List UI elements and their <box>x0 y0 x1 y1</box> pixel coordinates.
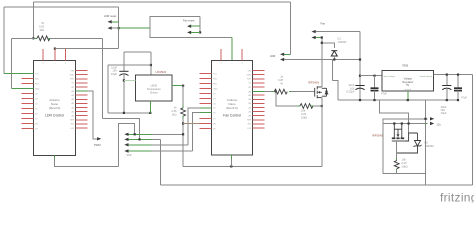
wire PWM from U1 <box>88 91 98 139</box>
wire divider row left <box>12 37 35 39</box>
svg-text:0.25: 0.25 <box>301 112 307 116</box>
wire 12V input rail <box>360 75 382 77</box>
node junction fan/12V rail <box>359 75 361 77</box>
svg-text:0.22µF: 0.22µF <box>346 90 355 94</box>
wire R5 top lead <box>396 152 398 158</box>
Q1 gate arrow <box>317 91 320 93</box>
capacitor C3 47uF <box>374 76 376 88</box>
svg-text:(Rev3.0): (Rev3.0) <box>226 106 238 110</box>
svg-text:10k: 10k <box>301 108 306 112</box>
label U4 inner <box>402 77 413 87</box>
node junction C5 top <box>457 74 459 76</box>
svg-text:10µF: 10µF <box>111 72 117 76</box>
wire gnd riser to row1 <box>119 124 135 167</box>
node junction LDR reset <box>118 27 120 29</box>
wire reset chain lower branch <box>150 28 232 37</box>
sensor U3 LM35 box <box>136 75 173 101</box>
wire LDR reset to Fan reset chain <box>119 27 150 29</box>
wire 12V riser <box>425 100 427 123</box>
svg-text:47uF: 47uF <box>381 92 387 96</box>
svg-text:Fan reset: Fan reset <box>183 19 195 23</box>
U1 top pin numbers <box>42 63 67 65</box>
wire 5V output rail <box>433 74 472 76</box>
connector arrow row3 <box>124 143 128 146</box>
resistor R4 10k <box>300 104 313 109</box>
wire ldr spur <box>331 60 333 81</box>
wire reset stub down <box>118 28 120 48</box>
svg-text:LDR: LDR <box>270 54 275 58</box>
wire 12V block loop <box>383 124 426 174</box>
wire R2 bottom to row1 <box>182 116 184 119</box>
node junction C4 top <box>446 74 448 76</box>
node junction R2 row1 <box>182 133 184 135</box>
node junction H1-LM35 <box>149 112 151 114</box>
connector arrow Fan reset 2 <box>187 31 191 34</box>
wire D1 anode to LDR line <box>333 56 335 60</box>
wire cap top rail <box>108 64 151 66</box>
svg-text:fritzing: fritzing <box>440 191 474 204</box>
node junction row2 <box>138 138 140 140</box>
connector arrow LDR 1 <box>280 53 284 56</box>
U3 right pin <box>172 85 183 87</box>
svg-text:ground: ground <box>405 89 411 91</box>
svg-text:VIN: VIN <box>71 70 75 72</box>
wire row4 to Arduino2 <box>128 150 152 152</box>
connector arrow 12v minus <box>426 123 428 125</box>
wire R5 bottom lead <box>396 169 398 171</box>
wire Arduino1 reset pin to frame <box>4 73 33 75</box>
node junction gnd C2 <box>359 99 361 101</box>
svg-text:PWM: PWM <box>94 143 101 147</box>
wire LDR sense line <box>284 59 360 61</box>
resistor R3 1k gate <box>274 89 287 94</box>
wire Fan reset vertical <box>199 17 201 33</box>
node junction D1/LDR line <box>333 58 335 60</box>
transistor Q1 IRF540N <box>315 86 328 98</box>
wire Q1 source down <box>321 98 323 167</box>
arduino U2 Fan Control box <box>212 60 253 155</box>
wire fan feed down to 12V rail <box>359 32 361 101</box>
wire Q2 source to R5 <box>396 141 398 152</box>
capacitor C5 ceramic <box>457 75 459 88</box>
U2 top pin 2 reset <box>241 49 243 60</box>
node junction row1 <box>134 133 136 135</box>
wire cap top feed <box>124 51 151 53</box>
svg-text:1N4007: 1N4007 <box>338 40 348 44</box>
svg-text:LDR Control: LDR Control <box>45 114 64 118</box>
wire 5V bottom rail <box>161 184 473 186</box>
U2 pin labels left <box>213 73 218 130</box>
node junction gate divider <box>275 91 277 93</box>
U1 top pin 1 <box>42 49 44 60</box>
resistor R2 1k vertical <box>181 108 186 116</box>
wire top 5V rail <box>33 1 290 3</box>
node junction C5 gnd <box>457 99 459 101</box>
node junction divider top <box>32 37 34 39</box>
wire 5V rail drop to divider <box>32 2 34 38</box>
wire row1 <box>128 133 152 135</box>
wire gnd spur corner <box>332 81 338 100</box>
svg-text:LM35DZ: LM35DZ <box>156 70 167 74</box>
wire A2 pin stub <box>183 123 199 125</box>
svg-text:LDR reset: LDR reset <box>104 14 116 18</box>
node junction C1 / LM35 left pin <box>123 79 125 81</box>
connector arrow row2 <box>124 138 128 141</box>
svg-text:7805: 7805 <box>402 64 409 68</box>
connector arrow 12v plus <box>383 119 428 124</box>
svg-text:IRF540N: IRF540N <box>308 81 319 85</box>
wire ground rail right section <box>338 99 458 101</box>
wire top-left horizontal (reset net) <box>4 6 119 8</box>
svg-text:10µF: 10µF <box>441 111 447 115</box>
transistor Q2 IRF9540 <box>392 124 418 142</box>
wire ground rail mid <box>183 165 322 167</box>
U1 top pin 2 (5V) <box>54 49 56 60</box>
Q2 arrow <box>397 134 400 137</box>
svg-text:Fan Control: Fan Control <box>223 114 241 118</box>
label U1 Arduino Nano (Rev3.0) <box>49 98 61 110</box>
connector arrow PWM <box>97 137 101 140</box>
wire flyback branch <box>322 43 335 48</box>
node junction block top <box>408 122 410 124</box>
svg-text:47uF: 47uF <box>461 96 467 100</box>
svg-text:Fan: Fan <box>321 22 326 26</box>
svg-text:GND: GND <box>70 75 75 77</box>
connector arrow LDR reset 2 <box>108 26 112 29</box>
node junction fan drain <box>321 36 323 38</box>
resistor R5 10k <box>394 161 399 169</box>
U1 right pins <box>76 71 88 128</box>
svg-text:12v: 12v <box>437 123 442 127</box>
U3 left pin <box>124 79 136 81</box>
U1 top pin 3 <box>65 49 67 60</box>
wire LM35 out down to R2 <box>182 86 184 106</box>
node junction source/pulldown <box>321 105 323 107</box>
wire 5V rail drop to LDR connector <box>289 2 291 54</box>
U2 top pin numbers <box>220 63 243 65</box>
regulator U4 7805 box <box>382 70 433 91</box>
svg-text:5V: 5V <box>406 84 409 87</box>
node junction H1-C1 <box>123 112 125 114</box>
node junction A2 gnd <box>230 165 232 167</box>
capacitor C2 22uF <box>355 85 364 87</box>
capacitor C1 10uF <box>123 52 125 71</box>
capacitor C4 electrolytic <box>446 75 448 86</box>
wire R4 to source <box>311 105 314 107</box>
node junction LM35 out <box>182 85 184 87</box>
arduino U1 LDR Control box <box>34 60 76 155</box>
svg-text:0.25: 0.25 <box>278 78 284 82</box>
U4 ground pin wire <box>407 91 409 100</box>
wire divider down right side <box>101 38 103 118</box>
wire divider to Arduino1 A-pin <box>11 38 13 88</box>
wire gate row from U2 <box>265 91 272 93</box>
wire H1 ground link <box>108 112 150 114</box>
wire H2 to row2 <box>102 118 139 139</box>
svg-text:10k: 10k <box>402 157 407 161</box>
U2 left pins <box>200 74 212 129</box>
connector arrow LDR reset 1 <box>108 20 112 23</box>
svg-text:D2: D2 <box>425 140 429 144</box>
svg-text:VCC: VCC <box>127 154 132 157</box>
wire gnd drop into block <box>380 100 409 133</box>
node junction gnd C3 <box>373 99 375 101</box>
U2 top pin 1 <box>220 49 222 60</box>
wire row2 drop to 5V bottom rail <box>160 139 162 185</box>
connector arrow Fan reset 1 <box>187 25 191 28</box>
svg-text:0.25: 0.25 <box>39 24 45 28</box>
resistor R1 1k 0.25W <box>37 36 50 41</box>
wire reset drop to LDR reset arrows <box>118 7 120 28</box>
U2 pin labels right <box>247 70 252 129</box>
wire left frame vertical (reset net) <box>3 7 5 73</box>
wire divider row right <box>48 37 51 39</box>
diode D1 1N4007 <box>331 51 337 56</box>
wire Q1 drain up <box>321 38 323 88</box>
svg-text:10kΩ: 10kΩ <box>402 165 408 169</box>
connector arrow LDR 2 <box>280 58 284 61</box>
node junction flyback top <box>321 42 323 44</box>
node junction 12v riser <box>424 118 426 120</box>
U2 bottom GND pin wire <box>230 155 232 160</box>
wire row3 to Arduino2 <box>128 144 152 146</box>
svg-text:1kΩ: 1kΩ <box>172 113 177 117</box>
svg-text:D1: D1 <box>338 37 342 41</box>
connector arrow Fan 2 <box>312 36 316 39</box>
diode D2 zener 1N4099 <box>397 133 422 153</box>
U1 pin labels left <box>35 73 40 130</box>
wire gate row to mosfet <box>289 91 292 93</box>
svg-text:input voltage: input voltage <box>384 75 396 78</box>
connector arrow row4 <box>124 149 128 152</box>
wire cap rail left drop <box>107 65 109 113</box>
node junction Fan reset <box>199 31 201 33</box>
svg-text:Sensor: Sensor <box>150 91 158 94</box>
svg-text:0.25: 0.25 <box>171 109 177 113</box>
svg-text:IRF9540: IRF9540 <box>372 133 383 137</box>
svg-text:1N4099: 1N4099 <box>425 144 435 148</box>
node junction LM35 vcc <box>150 64 152 66</box>
node junction gnd U4 <box>407 99 409 101</box>
wire 5V feed line <box>55 48 119 50</box>
node junction R2 tap <box>182 122 184 124</box>
wire LM35 riser <box>150 52 152 75</box>
node junction C4 gnd <box>446 99 448 101</box>
wire 5V right drop <box>472 75 474 185</box>
U1 pin labels right <box>70 70 75 129</box>
wire gate pulldown drop <box>276 92 298 106</box>
svg-text:10kΩ: 10kΩ <box>301 116 307 120</box>
node junction fan/ldr <box>359 58 361 60</box>
svg-text:GND: GND <box>213 88 218 90</box>
wire row2 <box>128 138 152 140</box>
node junction 5V stub <box>54 48 56 50</box>
U1 bottom GND pin wire <box>54 155 56 160</box>
U2 right pins <box>253 71 265 128</box>
wire reset to Arduino2 top pin <box>231 38 233 61</box>
connector arrow Fan 1 <box>312 30 316 33</box>
U1 left pins <box>22 74 34 129</box>
svg-text:VIN: VIN <box>248 70 252 72</box>
svg-text:0.25: 0.25 <box>402 161 408 165</box>
svg-text:1kΩ: 1kΩ <box>39 28 44 32</box>
U3 bottom pin wire <box>149 101 151 113</box>
label U3 inner text <box>147 85 162 95</box>
connector arrow row1 <box>124 133 128 136</box>
svg-text:(Rev3.0): (Rev3.0) <box>49 106 61 110</box>
label U2 Arduino Nano (Rev3.0) <box>226 98 238 110</box>
svg-text:GND: GND <box>247 75 252 77</box>
node junction C3 top <box>373 75 375 77</box>
Q2 node dots <box>393 122 395 124</box>
svg-text:output voltage: output voltage <box>419 75 432 78</box>
svg-text:GND: GND <box>35 88 40 90</box>
